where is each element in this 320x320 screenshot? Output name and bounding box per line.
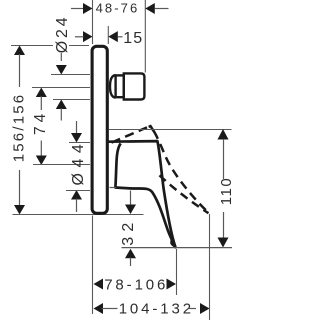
dim 32 bottom arrow (up) <box>125 249 136 259</box>
lever tip wedge <box>170 238 175 248</box>
dim Ø24 top arrow (down) <box>56 65 67 75</box>
svg-text:156/156: 156/156 <box>11 93 28 163</box>
svg-text:Ø24: Ø24 <box>54 15 71 54</box>
svg-text:78-106: 78-106 <box>104 276 168 293</box>
lever top extension line y=129 <box>109 129 232 131</box>
dim 15 left arrow <box>83 31 93 42</box>
wall line under plate y=214.8 <box>13 214 144 216</box>
knob top extension line y=74.5 <box>51 74 90 76</box>
baseline y=248 <box>122 247 233 249</box>
extension line left of dim 48-76 (wall face x=92.5) <box>92 0 94 44</box>
lever base underside tick to plate <box>110 187 117 189</box>
dashed lever underside (raised position) <box>160 175 209 213</box>
svg-text:110: 110 <box>218 177 235 205</box>
dim 15 right tail <box>118 36 123 38</box>
svg-text:Ø44: Ø44 <box>70 139 87 186</box>
knob body <box>124 73 145 99</box>
dim 78-106 left arrow <box>94 279 104 290</box>
svg-text:74: 74 <box>32 110 49 135</box>
plate top extension line y=45.5 <box>11 45 53 47</box>
knob center extension line y=87.5 <box>32 87 90 89</box>
dim Ø24 upper tail <box>60 53 62 61</box>
extension line right of dim 48-76 (knob tip x=145.3) <box>144 0 146 73</box>
dim 104-132 left tail <box>102 308 118 310</box>
dim 74 upper tail <box>40 96 42 110</box>
extension line right of dim 15 (plate front x=108.3) <box>107 26 109 44</box>
dashed lever right edge (raised position) <box>149 126 154 131</box>
svg-text:48-76: 48-76 <box>96 0 140 15</box>
dim Ø24 bottom arrow (up) <box>56 100 67 110</box>
dashed lever top edge (raised position) <box>112 127 148 142</box>
bottom extension line x=92.5 <box>92 216 94 315</box>
dim 156/156 top arrow (up) <box>14 46 25 56</box>
dim 104-132 right arrow <box>200 303 210 314</box>
bottom extension line x=176 (solid lever tip) <box>176 249 178 295</box>
dim Ø44 upper tail <box>76 121 78 134</box>
dim 110 bottom arrow (down) <box>218 238 229 248</box>
dim 110 top arrow (up) <box>218 129 229 140</box>
dim Ø44 bottom arrow (up) <box>71 190 82 200</box>
dim 32 lower tail <box>130 258 132 267</box>
dim 104-132 right tail <box>189 308 197 310</box>
dim 48-76 right arrow <box>145 3 155 14</box>
escutcheon plate (side view) <box>92 46 107 213</box>
dim 78-106 right arrow <box>167 279 177 290</box>
knob bottom extension line y=99.5 <box>53 99 90 101</box>
dim 104-132 left arrow <box>94 303 104 314</box>
dim 48-76 left tail <box>71 8 84 10</box>
dim Ø44 lower tail <box>76 199 78 213</box>
dim 74 bottom arrow (down) <box>36 156 47 166</box>
svg-text:15: 15 <box>123 30 143 47</box>
dim 32 top arrow (down) <box>125 205 136 215</box>
handle base top extension line y=142.5 <box>69 142 90 144</box>
dim 156/156 line lower <box>19 170 21 206</box>
bottom extension line x=209.5 (dashed lever tip) <box>209 214 211 320</box>
dim 15 right arrow <box>108 31 118 42</box>
dim 110 lower line <box>223 212 225 239</box>
handle pivot extension line y=165 <box>33 164 90 166</box>
svg-text:32: 32 <box>120 217 137 245</box>
svg-text:104-132: 104-132 <box>119 300 194 317</box>
dim Ø44 top arrow (down) <box>71 133 82 143</box>
handle base bottom extension line y=190 <box>66 190 90 192</box>
dim 156/156 line upper <box>19 54 21 87</box>
dim 74 lower tail <box>40 141 42 156</box>
lever handle (solid, side view) <box>108 141 176 247</box>
dim 32 upper tail <box>130 191 132 206</box>
dim 156/156 bottom arrow (down) <box>14 205 25 215</box>
dim 74 top arrow (up) <box>36 88 47 98</box>
dim 15 left tail <box>75 36 84 38</box>
knob sleeve (curved escutcheon of handle) <box>110 75 116 98</box>
dim 48-76 left arrow <box>83 3 93 14</box>
knob ring <box>116 75 124 97</box>
dim Ø24 lower tail <box>60 108 62 121</box>
dim 110 upper line <box>223 139 225 179</box>
dim 48-76 right tail <box>155 8 169 10</box>
